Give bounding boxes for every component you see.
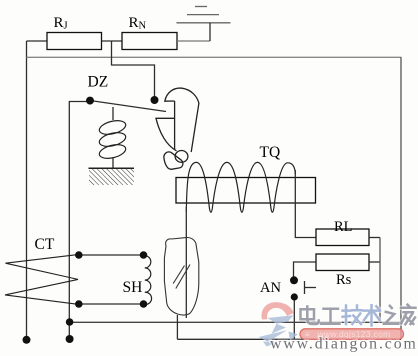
DZ anchor hatched block	[89, 168, 135, 185]
char gong	[321, 309, 340, 324]
DZ contact left dot	[86, 97, 94, 105]
DZ spring	[98, 118, 127, 161]
AN actuator bar	[305, 287, 317, 289]
bottom bus junction dot	[66, 318, 74, 326]
DZ contact movable blade	[90, 101, 166, 112]
blade lower lead	[176, 315, 178, 339]
right drop wire to bottom bus	[379, 238, 381, 323]
main contact blade outline	[164, 238, 198, 316]
wire RN to supply	[177, 40, 210, 42]
svg-text:RL: RL	[334, 219, 353, 235]
wire Rs left to AN button	[294, 262, 317, 277]
SH bottom-left dot	[75, 300, 83, 308]
wire RJ to RN	[102, 40, 123, 42]
resistor RN	[122, 33, 177, 50]
char jia	[401, 305, 416, 325]
AN lower lead	[293, 300, 295, 339]
DZ armature pivot bracket	[164, 152, 183, 169]
wire Rs right	[369, 261, 380, 263]
left rail / CT primary left conductor	[26, 41, 28, 337]
wire left rail to RJ	[27, 40, 48, 42]
lower bus y339	[177, 338, 401, 340]
DZ spring hanger	[112, 107, 114, 120]
watermark logo crescent	[262, 302, 294, 319]
resistor RJ	[47, 33, 102, 50]
svg-text:AN: AN	[260, 280, 281, 296]
CT left terminal dot	[23, 336, 31, 344]
SH loop top wire	[79, 254, 144, 256]
supply vertical lead	[209, 23, 211, 41]
char dian	[301, 307, 319, 325]
SH top-right dot	[140, 251, 148, 259]
CT secondary zigzag	[5, 254, 79, 304]
wire RL right	[369, 237, 380, 239]
TQ core	[176, 178, 316, 204]
svg-text:CT: CT	[35, 236, 55, 253]
watermark logo bolt	[259, 315, 299, 346]
DZ armature pole wedge	[156, 118, 177, 151]
CT right terminal dot	[66, 335, 74, 343]
svg-text:SH: SH	[123, 279, 143, 296]
DZ armature lever left edge	[174, 101, 176, 150]
SH bottom-right dot	[140, 300, 148, 308]
svg-text:DZ: DZ	[88, 74, 109, 91]
DZ contact right dot	[151, 96, 159, 104]
right rail	[400, 57, 402, 339]
tap wire from RJ-RN junction down to DZ contact	[112, 41, 155, 97]
AN lower dot	[291, 293, 298, 300]
TQ winding right lead	[295, 170, 316, 238]
TQ left lead down through blade	[185, 207, 187, 318]
char shu	[364, 305, 381, 325]
blade inner diagonal strokes	[176, 265, 190, 289]
AN upper dot	[290, 276, 298, 284]
char zhi	[384, 306, 399, 324]
SH loop bottom wire	[79, 303, 144, 305]
SH coil bumps	[144, 255, 152, 304]
watermark red pill	[300, 329, 404, 340]
DZ armature lever	[165, 88, 199, 152]
bottom bus y322	[70, 321, 402, 323]
supply earth symbol	[177, 7, 231, 23]
resistor Rs	[316, 254, 369, 271]
svg-text:TQ: TQ	[260, 144, 281, 161]
bus wire y57	[27, 56, 402, 58]
char ji	[343, 306, 362, 325]
resistor RL	[316, 229, 369, 246]
SH top-left dot	[75, 251, 83, 259]
TQ winding	[186, 162, 295, 212]
DZ contact left terminal wire	[69, 102, 90, 337]
watermark text dianGONGjishuzhijia	[301, 305, 416, 326]
svg-text:www.diangon.com: www.diangon.com	[270, 336, 418, 353]
DZ armature pivot circle	[175, 151, 188, 163]
DZ spring anchor stem	[112, 157, 114, 168]
AN actuator stem	[304, 281, 306, 294]
svg-text:Rs: Rs	[336, 272, 352, 288]
